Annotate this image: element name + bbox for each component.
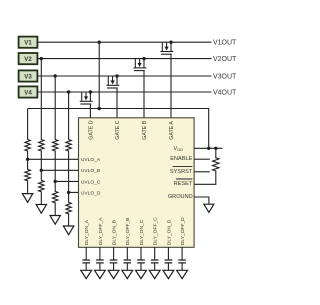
node V2 divider tap [40,57,43,60]
wire V1 rail [37,41,211,43]
wire UVLO_C [55,180,78,182]
svg-text:GATE C: GATE C [115,120,121,139]
resistor R8 [66,192,71,226]
resistor R7 [66,130,71,193]
wire V4 divider drop [68,92,70,130]
node V4 divider tap [67,90,70,93]
svg-text:UVLO_B: UVLO_B [81,168,100,174]
wire C4 to ground [126,263,128,270]
pin label SYSRST overline [173,166,193,168]
capacitor C1 [82,260,90,263]
svg-text:RESET: RESET [174,181,193,187]
capacitor C3 [110,260,118,263]
svg-text:ENABLE: ENABLE [170,156,192,162]
resistor R9 [194,148,219,184]
wire C2 to ground [99,263,101,270]
wire V1 divider drop [98,42,100,108]
wire UVLO_D [69,191,79,193]
supply input box V1 [19,37,38,48]
node UVLO_A tap [26,158,29,161]
wire C1 to ground [85,263,87,270]
svg-text:UVLO_C: UVLO_C [81,179,101,185]
ground [177,270,188,278]
ground [50,216,60,225]
transistor Q2 [133,57,146,71]
svg-text:UVLO_A: UVLO_A [81,157,101,163]
node V1 rail tee [98,107,101,110]
svg-text:V2OUT: V2OUT [213,56,237,63]
capacitor C6 [151,260,159,263]
svg-text:DLY_ON_D: DLY_ON_D [166,219,172,245]
capacitor C4 [124,260,132,263]
wire V4 rail [37,91,211,93]
ground [95,270,106,278]
resistor R4 [39,170,44,204]
ground [81,270,92,278]
svg-text:V4OUT: V4OUT [213,89,237,96]
capacitor C2 [96,260,104,263]
ground [204,204,214,212]
wire ENABLE pin [194,158,210,160]
svg-text:V2: V2 [24,56,32,63]
svg-text:V3: V3 [24,73,32,80]
wire DLY_ON_C pin [140,247,142,260]
wire V1 to VDD rail [28,109,209,149]
supply input box V4 [19,86,38,97]
ground [149,270,160,278]
wire gate B lead [143,71,145,118]
svg-text:GATE A: GATE A [169,121,175,140]
wire DLY_OFF_D pin [181,247,183,260]
ground [22,194,32,203]
svg-text:DLY_ON_C: DLY_ON_C [139,219,145,245]
svg-text:GATE D: GATE D [88,120,94,139]
svg-text:V1OUT: V1OUT [213,40,237,47]
transistor Q3 [106,74,119,88]
capacitor C5 [137,260,145,263]
svg-text:GROUND: GROUND [168,194,193,200]
supply input box V2 [19,53,38,64]
node UVLO_D tap [67,191,70,194]
wire gate D lead [89,104,91,118]
wire DLY_ON_A pin [85,247,87,260]
node VDD tee [207,147,210,150]
svg-text:UVLO_D: UVLO_D [81,190,101,196]
wire DLY_OFF_B pin [126,247,128,260]
svg-text:V3OUT: V3OUT [213,73,237,80]
wire GROUND pin [194,197,209,204]
supply input box V3 [19,70,38,81]
svg-text:VDD: VDD [173,146,183,152]
svg-text:DLY_OFF_C: DLY_OFF_C [153,217,159,245]
wire UVLO_A [28,158,79,160]
svg-text:DLY_OFF_A: DLY_OFF_A [98,217,104,245]
ground [136,270,147,278]
svg-text:DLY_OFF_D: DLY_OFF_D [180,217,186,245]
resistor R2 [25,159,30,193]
wire DLY_ON_B pin [113,247,115,260]
pin label RESET overline [176,178,192,180]
wire V3 divider drop [54,76,56,130]
wire gate C lead [116,88,118,118]
wire C8 to ground [181,263,183,270]
svg-text:V4: V4 [24,89,32,96]
node V3 divider tap [54,74,57,77]
wire VDD pin [194,147,222,149]
svg-text:DLY_ON_B: DLY_ON_B [112,220,118,245]
ground [122,270,133,278]
wire DLY_ON_D pin [167,247,169,260]
wire UVLO_B [41,169,78,171]
wire V2 divider drop [40,59,42,130]
IC U1 supply sequencer [79,118,195,248]
ground [108,270,119,278]
wire SYSRST pin [194,171,210,173]
wire C3 to ground [113,263,115,270]
svg-text:GATE B: GATE B [142,120,148,139]
resistor R1 [25,109,30,160]
capacitor C7 [165,260,173,263]
wire DLY_OFF_A pin [99,247,101,260]
wire gate A lead [170,54,172,118]
capacitor C8 [178,260,186,263]
wire V2 rail [37,58,211,60]
svg-text:DLY_ON_A: DLY_ON_A [84,219,90,245]
transistor Q1 [160,41,173,55]
node V1 rail junction [98,41,101,44]
wire V3 rail [37,75,211,77]
resistor R5 [53,130,58,182]
node VDD resistor tap [214,147,217,150]
transistor Q4 [80,90,93,104]
ground [163,270,174,278]
wire C7 to ground [167,263,169,270]
ground [36,205,46,214]
wire DLY_OFF_C pin [154,247,156,260]
ground [63,226,73,235]
wire C6 to ground [154,263,156,270]
svg-text:DLY_OFF_B: DLY_OFF_B [125,218,131,246]
resistor R3 [39,130,44,171]
node UVLO_C tap [54,180,57,183]
wire C5 to ground [140,263,142,270]
svg-text:V1: V1 [24,40,32,47]
svg-text:SYSRST: SYSRST [170,169,193,175]
resistor R6 [53,181,58,215]
node UVLO_B tap [40,169,43,172]
